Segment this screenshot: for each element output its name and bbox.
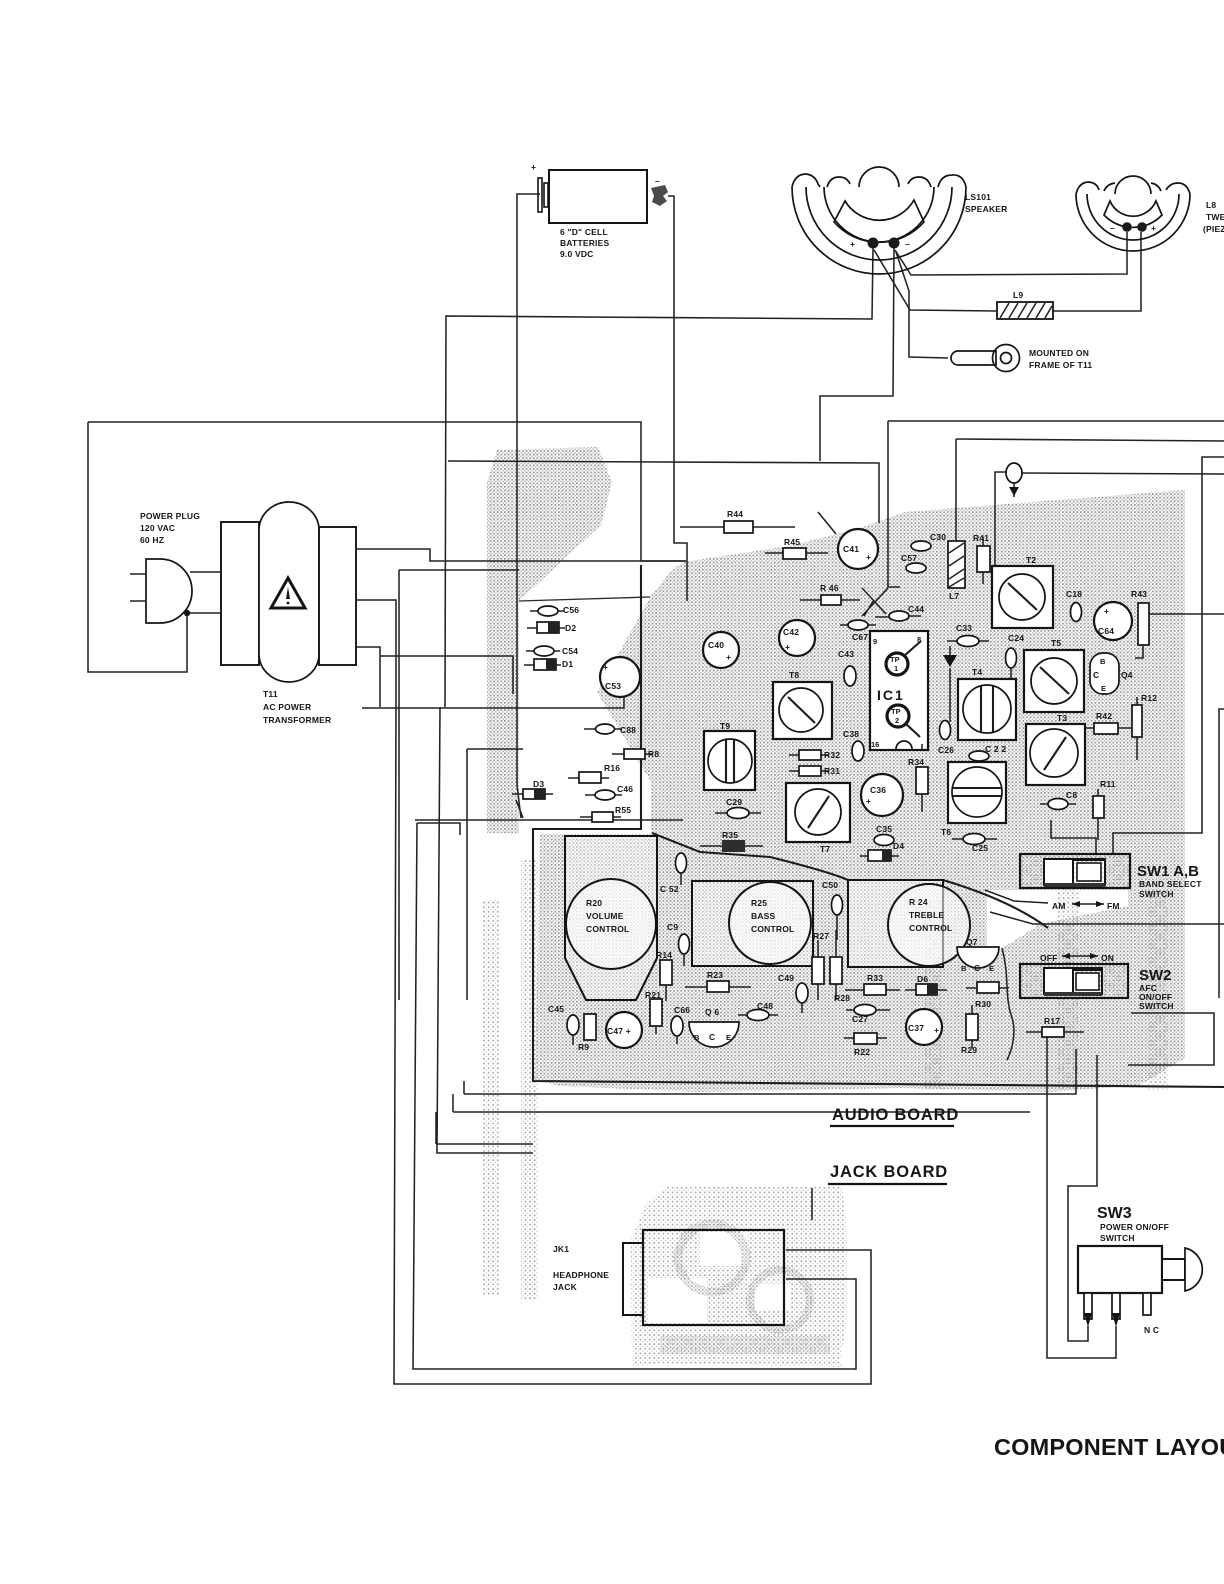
svg-text:T11: T11 <box>263 689 278 699</box>
jack board halftone ring <box>631 1187 847 1367</box>
resistor R29 <box>961 1005 978 1055</box>
svg-text:IC1: IC1 <box>877 687 905 703</box>
svg-text:R20: R20 <box>586 898 602 908</box>
svg-text:1: 1 <box>894 664 898 673</box>
white wedge below SW1 <box>987 890 1128 958</box>
svg-text:R30: R30 <box>975 999 991 1009</box>
svg-text:(PIEZO): (PIEZO) <box>1203 224 1224 234</box>
resistor R55 <box>580 805 631 822</box>
switch SW2 AFC on/off <box>1020 953 1174 1011</box>
svg-text:R 24: R 24 <box>909 897 928 907</box>
svg-text:AM: AM <box>1052 901 1066 911</box>
svg-text:B: B <box>694 1033 700 1042</box>
audio board outline bottom and left <box>533 565 1224 1087</box>
svg-text:+: + <box>866 552 871 562</box>
capacitor C33 <box>947 623 989 647</box>
svg-text:C53: C53 <box>605 681 621 691</box>
svg-text:9: 9 <box>873 637 877 646</box>
label AUDIO BOARD <box>830 1106 959 1126</box>
resistor R12 <box>1132 693 1157 760</box>
svg-text:C41: C41 <box>843 544 859 554</box>
capacitor C42 <box>779 620 815 656</box>
svg-text:R22: R22 <box>854 1047 870 1057</box>
svg-text:JACK: JACK <box>553 1282 578 1292</box>
resistor R28 <box>830 930 850 1003</box>
svg-text:T4: T4 <box>972 667 982 677</box>
transformer T8 <box>773 670 832 739</box>
svg-text:D2: D2 <box>565 623 576 633</box>
svg-text:R35: R35 <box>722 830 738 840</box>
capacitor C54 <box>526 646 578 656</box>
pocket top edge line <box>519 597 650 601</box>
svg-text:+: + <box>726 652 731 662</box>
svg-text:T3: T3 <box>1057 713 1067 723</box>
transformer T7 <box>786 783 850 854</box>
resistor R21 (dark label) <box>645 990 662 1034</box>
wire long vertical B x417 <box>417 823 460 835</box>
svg-text:C56: C56 <box>563 605 579 615</box>
svg-text:9.0 VDC: 9.0 VDC <box>560 249 594 259</box>
solder lug mounted on frame of T11 <box>951 345 1092 372</box>
capacitor C47 <box>606 1012 642 1048</box>
svg-text:16: 16 <box>871 740 879 749</box>
svg-text:+: + <box>531 162 536 172</box>
capacitor C49 <box>778 973 808 1013</box>
svg-text:AC POWER: AC POWER <box>263 702 311 712</box>
wire R17 lead down to SW3 pin2 <box>1047 1037 1116 1358</box>
wire long horizontal y656 <box>380 656 513 694</box>
svg-text:C30: C30 <box>930 532 946 542</box>
capacitor C38 <box>843 729 864 761</box>
wire battery left lead down <box>517 194 540 818</box>
capacitor C44 <box>875 604 924 621</box>
capacitor C37 <box>906 1009 942 1045</box>
svg-text:POWER ON/OFF: POWER ON/OFF <box>1100 1222 1169 1232</box>
svg-text:D4: D4 <box>893 841 904 851</box>
resistor R23 <box>685 970 751 992</box>
wire horizontal y820 under pocket <box>415 819 683 821</box>
svg-text:C33: C33 <box>956 623 972 633</box>
wire speaker plus diagonal to L9 line <box>874 250 997 311</box>
transformer T9 <box>704 721 755 790</box>
svg-text:60 HZ: 60 HZ <box>140 535 164 545</box>
resistor R34 <box>908 757 928 812</box>
resistor R31 <box>789 766 840 776</box>
wire curve from Q7 down past SW2 <box>1002 948 1014 1060</box>
svg-text:FRAME OF T11: FRAME OF T11 <box>1029 360 1092 370</box>
label JACK BOARD <box>828 1163 948 1184</box>
svg-text:R 46: R 46 <box>820 583 839 593</box>
svg-text:C49: C49 <box>778 973 794 983</box>
potentiometer R20 volume control <box>565 836 657 1000</box>
svg-text:R31: R31 <box>824 766 840 776</box>
speaker LS101 <box>792 167 1008 274</box>
svg-text:C37: C37 <box>908 1023 924 1033</box>
svg-text:OFF: OFF <box>1040 953 1058 963</box>
diode D1 <box>524 659 573 670</box>
capacitor C29 <box>715 797 761 819</box>
wire nested corner y1112 <box>452 1094 454 1112</box>
svg-text:–: – <box>655 176 660 186</box>
transistor Q7 <box>957 937 999 973</box>
wire horizontal y749 <box>466 749 468 1000</box>
svg-text:C: C <box>1093 670 1099 680</box>
wire transformer tap top <box>356 549 686 561</box>
svg-text:+: + <box>603 662 608 672</box>
svg-text:C24: C24 <box>1008 633 1024 643</box>
svg-text:C: C <box>974 963 980 973</box>
IC1 with test points <box>870 631 928 750</box>
diode D3 <box>512 779 553 818</box>
svg-text:TP: TP <box>891 707 901 716</box>
resistor R35 (dark) <box>700 830 763 852</box>
transistor Q6 <box>689 1007 739 1047</box>
svg-text:–: – <box>1110 223 1115 233</box>
svg-text:C36: C36 <box>870 785 886 795</box>
resistor R45 <box>765 537 828 559</box>
wire long horizontal y708 to C53 <box>362 695 624 708</box>
svg-text:T5: T5 <box>1051 638 1061 648</box>
svg-text:C54: C54 <box>562 646 578 656</box>
capacitor C24 <box>1006 633 1025 682</box>
svg-text:SW3: SW3 <box>1097 1205 1132 1222</box>
svg-text:T8: T8 <box>789 670 799 680</box>
svg-text:POWER PLUG: POWER PLUG <box>140 511 200 521</box>
transformer T2 <box>992 555 1053 628</box>
capacitor C64 <box>1094 602 1132 640</box>
headphone jack JK1 <box>553 1230 784 1325</box>
resistor R44 <box>680 509 795 533</box>
diode D2 <box>527 622 576 633</box>
capacitor C27 <box>846 1005 890 1025</box>
svg-text:R42: R42 <box>1096 711 1112 721</box>
svg-text:C50: C50 <box>822 880 838 890</box>
capacitor C36 <box>861 774 903 816</box>
svg-text:L8: L8 <box>1206 200 1216 210</box>
wire y439 top right run from L7 lead <box>956 439 1224 441</box>
svg-text:R8: R8 <box>648 749 659 759</box>
svg-text:E: E <box>989 964 994 973</box>
svg-text:SWITCH: SWITCH <box>1139 889 1174 899</box>
resistor R14 <box>656 950 672 1001</box>
svg-text:COMPONENT LAYOUT: COMPONENT LAYOUT <box>994 1434 1224 1460</box>
svg-text:R25: R25 <box>751 898 767 908</box>
svg-text:C44: C44 <box>908 604 924 614</box>
capacitor C66 <box>671 1005 690 1044</box>
wire L9 right lead to tweeter plus <box>1052 232 1141 311</box>
capacitor C88 <box>584 724 636 735</box>
transformer T5 <box>1024 638 1084 712</box>
svg-text:HEADPHONE: HEADPHONE <box>553 1270 609 1280</box>
svg-text:SW2: SW2 <box>1139 967 1172 984</box>
svg-text:C25: C25 <box>972 843 988 853</box>
transformer T4 <box>958 667 1016 740</box>
wire y421 top right run <box>888 420 1224 422</box>
capacitor C8 <box>1040 790 1077 810</box>
capacitor C30 <box>911 532 946 551</box>
svg-text:2: 2 <box>895 716 899 725</box>
capacitor C46 <box>585 784 633 800</box>
capacitor C9 <box>667 922 690 966</box>
svg-text:VOLUME: VOLUME <box>586 911 624 921</box>
capacitor C43 <box>838 649 856 686</box>
svg-text:C26: C26 <box>938 745 954 755</box>
capacitor C22 <box>969 744 1006 761</box>
wire long horizontal y461 to corner x879 <box>448 461 879 523</box>
resistor R43 <box>1131 589 1224 658</box>
AC power plug <box>130 511 200 623</box>
svg-text:N C: N C <box>1144 1325 1159 1335</box>
svg-text:R11: R11 <box>1100 779 1116 789</box>
svg-text:C40: C40 <box>708 640 724 650</box>
svg-text:B: B <box>1100 657 1106 666</box>
svg-text:CONTROL: CONTROL <box>909 923 952 933</box>
wire long vertical x399 <box>398 570 400 1000</box>
capacitor C45 <box>548 1004 579 1045</box>
resistor R9 <box>578 1014 596 1052</box>
svg-text:JACK BOARD: JACK BOARD <box>830 1163 948 1181</box>
svg-text:C: C <box>709 1032 715 1042</box>
wire vertical x888 down into board <box>888 421 900 587</box>
wire transformer tap middle <box>356 600 396 707</box>
jack board pointer line <box>811 1188 813 1220</box>
svg-text:C64: C64 <box>1098 626 1114 636</box>
svg-text:CONTROL: CONTROL <box>586 924 629 934</box>
capacitor C57 <box>901 553 926 573</box>
board edge curve above controls <box>652 833 848 880</box>
svg-text:R17: R17 <box>1044 1016 1060 1026</box>
svg-text:BATTERIES: BATTERIES <box>560 238 609 248</box>
svg-text:–: – <box>905 239 910 249</box>
svg-text:R34: R34 <box>908 757 924 767</box>
svg-text:+: + <box>785 642 790 652</box>
svg-text:C46: C46 <box>617 784 633 794</box>
svg-text:T7: T7 <box>820 844 830 854</box>
resistor R33 <box>845 973 900 995</box>
svg-text:L7: L7 <box>949 591 959 601</box>
svg-text:R28: R28 <box>834 993 850 1003</box>
svg-text:C 52: C 52 <box>660 884 679 894</box>
svg-text:T9: T9 <box>720 721 730 731</box>
svg-text:+: + <box>866 796 871 806</box>
svg-text:C 2 2: C 2 2 <box>985 744 1006 754</box>
transformer T6 <box>941 762 1006 837</box>
svg-text:C27: C27 <box>852 1014 868 1024</box>
svg-text:R55: R55 <box>615 805 631 815</box>
svg-text:D6: D6 <box>917 974 928 984</box>
inductor L7 <box>948 439 965 601</box>
capacitor C41 <box>838 529 878 569</box>
connector pin circle on wire y475 <box>1006 463 1022 497</box>
svg-text:T6: T6 <box>941 827 951 837</box>
wire long vertical C x440 <box>437 707 533 1153</box>
capacitor C50 <box>822 880 843 940</box>
svg-text:C67: C67 <box>852 632 868 642</box>
svg-text:6 "D" CELL: 6 "D" CELL <box>560 227 608 237</box>
capacitor C25 <box>952 834 997 854</box>
svg-text:C35: C35 <box>876 824 892 834</box>
resistor R41 <box>973 533 990 584</box>
battery B1 6 D-cell pack <box>531 162 668 259</box>
potentiometer R25 bass control <box>692 881 813 966</box>
svg-text:LS101: LS101 <box>965 192 991 202</box>
svg-text:L9: L9 <box>1013 290 1023 300</box>
svg-text:BASS: BASS <box>751 911 776 921</box>
svg-text:TRANSFORMER: TRANSFORMER <box>263 715 331 725</box>
resistor R11 <box>1093 779 1116 840</box>
resistor R8 <box>612 749 659 759</box>
svg-text:C88: C88 <box>620 725 636 735</box>
wire speaker plus terminal down to horizontal run <box>445 248 873 707</box>
svg-text:BAND SELECT: BAND SELECT <box>1139 879 1202 889</box>
wire plug to transformer lower with junction <box>187 612 221 614</box>
svg-text:SWITCH: SWITCH <box>1139 1001 1174 1011</box>
svg-text:R9: R9 <box>578 1042 589 1052</box>
svg-text:TP: TP <box>890 655 900 664</box>
wire y472 run with connector circle <box>995 472 1006 566</box>
capacitor C40 <box>703 632 739 668</box>
svg-text:+: + <box>1104 606 1109 616</box>
svg-text:R29: R29 <box>961 1045 977 1055</box>
antenna pin symbol <box>943 646 957 722</box>
svg-text:R33: R33 <box>867 973 883 983</box>
svg-text:E: E <box>1101 684 1106 693</box>
resistor R42 <box>1085 711 1131 734</box>
wire transformer tap bottom <box>356 647 380 707</box>
svg-text:R44: R44 <box>727 509 743 519</box>
svg-text:D1: D1 <box>562 659 573 669</box>
transformer T11 AC power <box>221 502 356 725</box>
resistor R22 <box>844 1033 887 1057</box>
wire step into SW1 top <box>1051 820 1096 854</box>
wire nested corner y1094 <box>463 1081 465 1094</box>
svg-text:C45: C45 <box>548 1004 564 1014</box>
capacitor C56 <box>530 605 579 616</box>
wire speaker minus terminal down stepped run <box>820 248 894 461</box>
svg-text:C42: C42 <box>783 627 799 637</box>
svg-text:TREBLE: TREBLE <box>909 910 944 920</box>
svg-text:T2: T2 <box>1026 555 1036 565</box>
svg-text:R27: R27 <box>813 931 829 941</box>
svg-text:Q4: Q4 <box>1121 670 1133 680</box>
svg-text:C18: C18 <box>1066 589 1082 599</box>
left gray band of board <box>487 447 612 833</box>
svg-text:AUDIO BOARD: AUDIO BOARD <box>832 1106 959 1124</box>
svg-text:+: + <box>850 239 855 249</box>
svg-text:C29: C29 <box>726 797 742 807</box>
svg-text:C57: C57 <box>901 553 917 563</box>
svg-text:TWEETER: TWEETER <box>1206 212 1224 222</box>
potentiometer R24 treble control <box>848 880 970 967</box>
main audio/rf board halftone area <box>535 490 1185 1092</box>
svg-text:C47 +: C47 + <box>607 1026 631 1036</box>
wire right edge vertical to SW1 area <box>1219 709 1224 998</box>
svg-text:CONTROL: CONTROL <box>751 924 794 934</box>
resistor R16 <box>568 763 620 783</box>
svg-text:R23: R23 <box>707 970 723 980</box>
diode D4 <box>860 841 904 861</box>
svg-text:R43: R43 <box>1131 589 1147 599</box>
wire left frame down and bottom <box>88 422 187 672</box>
wire corner at right edge down to SW1 <box>1113 457 1224 854</box>
left vertical streak bands <box>483 900 499 1295</box>
svg-text:C9: C9 <box>667 922 678 932</box>
wire SW2 area down to SW3 pin1 <box>1068 1055 1097 1341</box>
svg-text:E: E <box>726 1033 731 1042</box>
svg-text:Q 6: Q 6 <box>705 1007 719 1017</box>
switch SW3 power on/off <box>1078 1205 1202 1335</box>
diode D6 <box>905 974 947 995</box>
wire speaker minus diagonal to tweeter line <box>895 232 1127 275</box>
svg-text:R14: R14 <box>656 950 672 960</box>
node junction at plug <box>184 610 190 616</box>
wire long horizontal y571 <box>399 569 519 571</box>
wire into SW1 AM/FM pointer <box>985 890 1048 903</box>
svg-text:MOUNTED ON: MOUNTED ON <box>1029 348 1089 358</box>
wire plug to transformer upper <box>190 571 221 573</box>
resistor R32 <box>789 750 840 760</box>
wire diagonal below SW1 to right edge <box>990 912 1224 924</box>
wire nested corner y1144 <box>435 1112 437 1144</box>
svg-text:D3: D3 <box>533 779 544 789</box>
svg-text:ON: ON <box>1101 953 1114 963</box>
AM/FM arrows <box>1052 901 1120 911</box>
resistor R27 <box>812 931 829 1000</box>
capacitor C52 <box>660 853 687 894</box>
svg-text:SW1 A,B: SW1 A,B <box>1137 863 1199 880</box>
speaker L8 tweeter <box>1076 176 1224 251</box>
svg-text:C38: C38 <box>843 729 859 739</box>
wire top frame big rectangle <box>88 422 686 561</box>
svg-text:R12: R12 <box>1141 693 1157 703</box>
capacitor C26 <box>938 721 954 756</box>
svg-text:SPEAKER: SPEAKER <box>965 204 1008 214</box>
svg-text:Q7: Q7 <box>966 937 978 947</box>
wire diagonal from minus dot to frame lug <box>896 252 948 358</box>
wire battery right lead down <box>668 196 687 601</box>
svg-text:B: B <box>961 964 967 973</box>
svg-text:R41: R41 <box>973 533 989 543</box>
svg-text:R16: R16 <box>604 763 620 773</box>
svg-text:+: + <box>934 1025 939 1035</box>
diagonal stub near R44 right lead <box>818 512 836 534</box>
svg-text:R32: R32 <box>824 750 840 760</box>
svg-text:C66: C66 <box>674 1005 690 1015</box>
wire bracket right of SW2 <box>1128 1013 1214 1065</box>
wire long vertical A x396 <box>394 707 871 1384</box>
svg-text:FM: FM <box>1107 901 1120 911</box>
svg-text:C48: C48 <box>757 1001 773 1011</box>
capacitor C48 <box>738 1001 778 1021</box>
capacitor C35 <box>874 824 894 846</box>
svg-text:SWITCH: SWITCH <box>1100 1233 1135 1243</box>
resistor R17 <box>1026 1016 1084 1037</box>
inductor L9 <box>997 290 1053 319</box>
svg-text:C8: C8 <box>1066 790 1077 800</box>
capacitor C53 <box>600 657 640 697</box>
svg-text:JK1: JK1 <box>553 1244 569 1254</box>
transistor Q4 <box>1090 653 1133 694</box>
switch SW1 A,B band select <box>1020 854 1202 899</box>
svg-text:R45: R45 <box>784 537 800 547</box>
svg-text:120 VAC: 120 VAC <box>140 523 175 533</box>
svg-text:+: + <box>1151 223 1156 233</box>
transformer T3 <box>1026 713 1085 785</box>
resistor R30 <box>966 982 1009 1009</box>
svg-text:C43: C43 <box>838 649 854 659</box>
wire below audio board bottom right <box>464 1049 1076 1094</box>
capacitor C18 <box>1066 589 1082 622</box>
